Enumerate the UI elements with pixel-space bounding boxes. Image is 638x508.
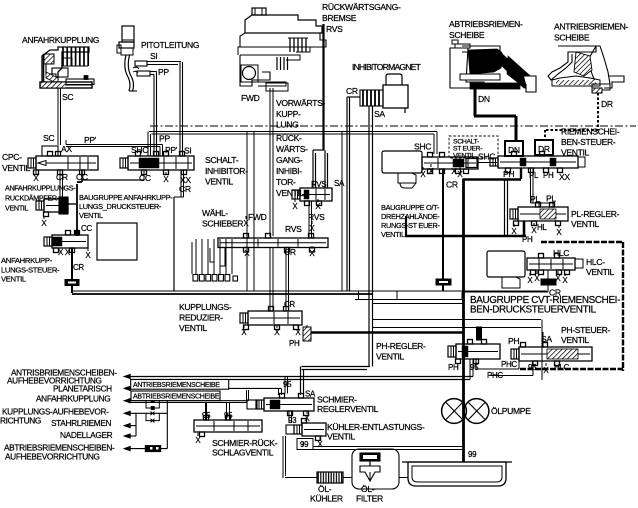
svg-text:PHC: PHC — [501, 360, 517, 369]
wire SA to phs — [542, 332, 544, 347]
svg-text:SI: SI — [184, 146, 191, 156]
svg-text:VENTIL: VENTIL — [5, 204, 28, 213]
svg-text:X: X — [562, 276, 568, 285]
svg-text:CR: CR — [73, 263, 84, 272]
svg-text:CC: CC — [139, 173, 151, 183]
wire inner line — [355, 291, 464, 304]
wire arrow row2 — [130, 388, 282, 395]
svg-text:LUNGS-STEUER-: LUNGS-STEUER- — [1, 265, 60, 274]
component damper black left — [65, 280, 79, 286]
svg-text:PH: PH — [503, 169, 514, 179]
wire CR down from schalt-steuer — [442, 169, 444, 279]
label PP top valve — [159, 134, 170, 144]
wire 99 lines — [303, 442, 464, 450]
arrow pointer 6 — [123, 433, 131, 439]
component box label ANTRIEBSRIEMENSCHEIBE — [131, 380, 229, 390]
svg-text:SCHEIBE: SCHEIBE — [554, 32, 590, 42]
label RVS top — [326, 24, 343, 34]
svg-text:X: X — [41, 219, 47, 228]
wire arrow row3 — [130, 390, 249, 403]
label PP' left — [84, 135, 97, 145]
wire CR down left — [71, 248, 73, 293]
wire 93 down — [289, 411, 292, 423]
component Oel-Kuehler — [317, 472, 343, 483]
svg-text:SHC: SHC — [131, 145, 148, 155]
svg-text:PITOTLEITUNG: PITOTLEITUNG — [141, 40, 200, 50]
wire DN thick — [474, 89, 516, 141]
label 95 under phr — [470, 363, 479, 372]
label XX under SIV — [180, 175, 191, 185]
port X waehl bot2 — [309, 246, 315, 258]
label CR under SIV — [179, 184, 191, 194]
label PHC — [501, 360, 517, 369]
component filter symbol — [360, 453, 380, 481]
svg-text:SCHIEBER: SCHIEBER — [202, 219, 243, 229]
group box Baugruppe Anfahrkupplung — [174, 131, 347, 291]
svg-text:SC: SC — [43, 133, 54, 143]
svg-text:FWD: FWD — [248, 212, 267, 222]
port XX steuer — [58, 248, 71, 257]
arrow pointer 2 — [123, 386, 131, 392]
label SI pitot — [150, 51, 157, 61]
svg-text:VENTIL: VENTIL — [205, 177, 234, 187]
wire SHC long bus — [148, 132, 437, 157]
port X srv — [195, 433, 201, 445]
label ANTRIEBSRIEMEN-SCHEIBE — [554, 22, 628, 43]
arrow pointer 5 — [123, 423, 131, 429]
wire PP vertical pipe — [154, 72, 157, 157]
wire PH bus — [405, 179, 526, 462]
wire arrow row5 — [130, 425, 136, 427]
component Anfahrkupplung clutch drawing — [40, 47, 94, 88]
svg-text:KÜHLER-ENTLASTUNGS-: KÜHLER-ENTLASTUNGS- — [327, 422, 425, 432]
label SA above valve — [334, 179, 345, 188]
component HLC solenoid box — [487, 251, 525, 288]
label PH under krv — [289, 339, 300, 348]
component PH line damper — [477, 327, 482, 340]
wire SHC to rsv — [477, 162, 497, 164]
svg-text:RVS: RVS — [326, 24, 343, 34]
label 95 c — [283, 380, 292, 389]
label ANFAHRKUPPLUNG2 — [36, 394, 110, 404]
label SCHALT-INHIBITOR-VENTIL — [205, 155, 248, 187]
label SHC right — [478, 152, 495, 162]
svg-text:X: X — [85, 251, 91, 260]
port X SIV — [163, 172, 169, 184]
svg-text:95: 95 — [470, 363, 479, 372]
valve Anfahrkupplungs-Ruckdaempfer-Ventil — [36, 197, 68, 217]
component Pitotleitung pitot tube drawing — [117, 26, 139, 91]
svg-text:PP: PP — [159, 134, 170, 144]
svg-text:SCHMIER-: SCHMIER- — [317, 395, 357, 405]
wire arrow row7 — [130, 448, 167, 450]
component Antriebsriemenscheibe pulley drawing — [548, 46, 624, 93]
svg-text:X: X — [511, 227, 517, 236]
label HLC-VENTIL — [586, 257, 615, 277]
label STAHRLRIEMEN — [51, 418, 112, 428]
wire PH thick horizontal — [311, 331, 464, 334]
label VORWAERTS-KUPP-LUNG — [276, 98, 326, 130]
wire CR double from magnet — [347, 97, 360, 291]
label PH under rsv — [503, 169, 514, 179]
svg-text:ABTRIEBSRIEMENSCHEIBE: ABTRIEBSRIEMENSCHEIBE — [133, 394, 220, 401]
label RVS waehl top — [285, 224, 302, 234]
port X rgi2 — [315, 199, 321, 211]
port X waehl bot1 — [244, 246, 250, 258]
wire DR dashed — [545, 93, 598, 141]
svg-text:99: 99 — [468, 450, 477, 459]
label BAUGRUPPE CVT — [470, 295, 620, 316]
svg-text:FWD: FWD — [241, 93, 260, 103]
svg-text:X: X — [292, 202, 298, 211]
wire 95 drop — [285, 377, 288, 394]
wire PH thick from PL — [523, 221, 526, 236]
svg-text:X: X — [309, 224, 315, 233]
label HLC phs — [554, 363, 570, 372]
svg-text:ANFAHRKUPPLUNG: ANFAHRKUPPLUNG — [36, 394, 110, 404]
svg-text:X: X — [274, 328, 280, 337]
label OEL-KUEHLER — [310, 484, 343, 504]
arrow pointer 1 — [123, 374, 131, 380]
svg-text:VENTIL: VENTIL — [79, 211, 103, 220]
label RVS right — [308, 212, 325, 222]
valve PL-Regler-Ventil — [510, 203, 568, 226]
port X ss1 — [420, 167, 426, 179]
svg-text:CC: CC — [81, 224, 92, 233]
label RIEMENSCHEIBEN-STEUER-VENTIL — [561, 127, 620, 158]
component CR damper mid — [436, 279, 451, 291]
label 95 phs — [528, 363, 537, 372]
label HL — [537, 223, 547, 232]
label RVS above valve — [311, 180, 326, 189]
svg-text:DN: DN — [478, 94, 490, 104]
label PL PL — [530, 194, 556, 205]
label CC under SIV — [139, 173, 151, 183]
svg-text:VENTIL: VENTIL — [561, 335, 590, 345]
svg-text:X: X — [317, 440, 323, 449]
label PP pitot — [158, 67, 169, 77]
port X hlc1 — [527, 273, 533, 285]
port X phs — [543, 363, 549, 375]
valve Schmier-Rueckschlagventil — [194, 416, 262, 437]
label 95 b — [224, 411, 233, 420]
svg-text:VENTIL: VENTIL — [453, 153, 476, 160]
label OEL-FILTER — [356, 484, 383, 504]
wire vert B — [166, 401, 168, 449]
label CR waehl — [284, 247, 296, 257]
label 99 pan — [468, 450, 477, 459]
label PLANETARISCH — [53, 384, 112, 394]
port X hlc4 — [562, 273, 568, 285]
svg-text:RÜCKWÄRTSGANG-: RÜCKWÄRTSGANG- — [322, 2, 401, 12]
wire SA double from magnet — [369, 106, 373, 367]
port X krv3 — [295, 325, 301, 337]
port X waehl top — [243, 216, 249, 228]
svg-text:X: X — [295, 328, 301, 337]
svg-text:X: X — [33, 174, 39, 183]
component CR damper HLC — [462, 270, 556, 299]
svg-text:KUPP-: KUPP- — [276, 109, 301, 119]
svg-text:SCHALT-: SCHALT- — [453, 139, 479, 146]
svg-text:CR: CR — [346, 86, 358, 96]
label SCHMIER-REGLERVENTIL — [317, 395, 379, 415]
svg-text:ANTRIEBSRIEMEN-: ANTRIEBSRIEMEN- — [554, 22, 628, 32]
wire PL wires — [531, 168, 555, 207]
boundary chain line top — [150, 125, 636, 127]
svg-text:CR: CR — [56, 172, 68, 182]
label 99 — [297, 439, 313, 450]
svg-text:X: X — [195, 436, 201, 445]
label DN — [478, 94, 490, 104]
wire PH upper thick — [463, 178, 522, 180]
svg-text:HLC: HLC — [554, 363, 570, 372]
label PH under phr — [448, 363, 459, 372]
svg-text:X: X — [428, 167, 434, 176]
svg-text:PH: PH — [448, 363, 459, 372]
label 95 a — [202, 411, 211, 420]
svg-text:X: X — [163, 175, 169, 184]
port X CPC — [33, 171, 39, 183]
label SC under clutch — [62, 92, 73, 102]
component DR port box — [535, 140, 553, 155]
label ANTRISBRIEMENSCHEIBEN-AUFHEBEVORRICHTUNG — [7, 368, 117, 386]
label PH under pl — [522, 235, 533, 244]
svg-text:PH: PH — [508, 336, 519, 346]
label INHIBITORMAGNET — [352, 62, 422, 72]
label CR under CPC — [56, 172, 68, 182]
svg-text:VENTIL: VENTIL — [586, 267, 615, 277]
svg-text:VENTIL: VENTIL — [179, 323, 208, 333]
wire RVS down — [309, 201, 312, 238]
svg-text:INHIBITORMAGNET: INHIBITORMAGNET — [352, 62, 422, 72]
wire CR from SIV — [174, 170, 184, 197]
svg-text:REDUZIER-: REDUZIER- — [179, 312, 223, 322]
label PH-REGLER-VENTIL — [376, 341, 426, 361]
component oil pan — [402, 462, 512, 486]
label 93 — [288, 416, 297, 425]
port X hlc3 — [555, 271, 561, 283]
svg-text:PH: PH — [543, 171, 554, 180]
label WAEHL-SCHIEBER — [202, 208, 243, 229]
label ANFAHRKUPPLUNGS-RUCKDAEMPFER-VENTIL — [5, 184, 76, 213]
svg-text:X: X — [543, 366, 549, 375]
arrow pointer 7 — [123, 446, 131, 452]
svg-text:KÜHLER: KÜHLER — [310, 494, 343, 504]
label ABTRIEBSRIEMEN-SCHEIBE — [449, 19, 523, 40]
label RVS mid — [0, 0, 1, 1]
label CR at magnet — [346, 86, 358, 96]
component PH hatch connector — [303, 325, 311, 341]
label PL-REGLER-VENTIL — [571, 209, 620, 229]
svg-text:TOR-: TOR- — [276, 177, 296, 187]
svg-text:PLANETARISCH: PLANETARISCH — [53, 384, 112, 394]
label CR above krv — [284, 300, 295, 309]
svg-text:CR: CR — [284, 300, 295, 309]
svg-text:SI: SI — [150, 51, 157, 61]
port X schmier — [304, 411, 310, 423]
valve PH-Steuer-Ventil — [511, 343, 592, 366]
svg-text:NADELLAGER: NADELLAGER — [60, 430, 113, 440]
svg-text:SC: SC — [62, 92, 73, 102]
label CC under CPC — [76, 172, 88, 182]
label FWD waehl — [248, 212, 267, 222]
port X pl2 — [531, 223, 537, 235]
svg-text:PP': PP' — [84, 135, 97, 145]
wire PH port drop — [520, 168, 522, 179]
label SA schmier — [305, 390, 316, 399]
svg-text:X: X — [420, 170, 426, 179]
wire vert A — [135, 413, 137, 436]
group CVT box — [520, 242, 623, 371]
svg-text:SA: SA — [334, 179, 345, 188]
component U symbol squares — [146, 399, 159, 410]
label CR under steuer — [73, 263, 84, 272]
wire ruckdaempfer link — [68, 203, 76, 205]
component Waehl-Schieber detent comb — [192, 239, 238, 281]
svg-text:LUNGS_DRUCKSTEUER-: LUNGS_DRUCKSTEUER- — [79, 202, 162, 211]
group dashed SCHALT-STEUER — [449, 136, 498, 158]
label BAUGRUPPE O/T — [381, 203, 440, 239]
port X hlc2 — [534, 271, 540, 283]
component Vorwaerts clutch and reverse brake drawing — [238, 8, 326, 91]
arrow pointer 3 — [123, 398, 131, 404]
wire arrow row6 — [130, 435, 136, 437]
svg-text:VORWÄRTS-: VORWÄRTS- — [276, 98, 326, 108]
label KUPPLUNGS-REDUZIER-VENTIL — [179, 302, 232, 333]
wire cooler drop — [283, 436, 286, 478]
wire CR from CPC — [60, 170, 63, 200]
svg-text:VENTIL: VENTIL — [376, 351, 405, 361]
label ABTRIEBSRIEMENSCHEIBEN-AUFHEBEVORRICHTUNG — [4, 443, 115, 462]
port X ss4 — [457, 167, 463, 179]
wire FWD pipe down — [270, 88, 273, 236]
component box label ABTRIEBSRIEMENSCHEIBE — [131, 391, 220, 401]
label SI mid — [184, 146, 191, 156]
svg-text:X: X — [556, 228, 562, 237]
label CR under hlc — [549, 288, 561, 298]
svg-text:WÄRTS-: WÄRTS- — [276, 144, 308, 154]
label CPC-VENTIL — [2, 152, 31, 173]
svg-text:RÜCK-: RÜCK- — [276, 133, 302, 143]
valve HLC-Ventil — [527, 254, 583, 275]
svg-text:AX: AX — [61, 144, 72, 154]
wire arrow row4 — [130, 412, 167, 414]
label PH-STEUER-VENTIL — [561, 325, 611, 345]
svg-text:REGLERVENTIL: REGLERVENTIL — [317, 404, 379, 414]
valve Schalt-Inhibitor-Ventil — [120, 152, 194, 175]
label PH under rsv2 — [543, 171, 554, 180]
port X steuer2 — [85, 248, 91, 260]
group box PH-Regler — [372, 320, 542, 381]
component damper on abtriebs line — [145, 446, 160, 452]
label BAUGRUPPE ANFAHRKUPP — [79, 193, 173, 220]
wire bus drops — [270, 248, 289, 312]
svg-text:ÖL-: ÖL- — [361, 484, 375, 494]
label PHC2 — [487, 371, 503, 380]
wire SI vertical pipe — [180, 62, 183, 156]
valve PH-Regler-Ventil — [448, 340, 500, 364]
svg-text:ABTRIEBSRIEMEN-: ABTRIEBSRIEMEN- — [449, 19, 523, 29]
label PH above phs — [508, 336, 519, 346]
svg-text:SHC: SHC — [414, 142, 431, 152]
svg-text:VENTIL: VENTIL — [381, 230, 405, 239]
wire RVS pipe — [313, 24, 328, 188]
label FWD — [241, 93, 260, 103]
svg-text:BAUGRUPPE ANFAHRKUPP-: BAUGRUPPE ANFAHRKUPP- — [79, 193, 173, 202]
wire PH double vertical — [505, 179, 508, 236]
svg-text:X: X — [315, 202, 321, 211]
port X ruckdaempfer — [41, 216, 47, 228]
label AX — [61, 144, 72, 154]
svg-text:X: X — [244, 249, 250, 258]
label SCHMIER-RUECK-SCHLAGVENTIL — [212, 438, 278, 458]
label CR under ss — [446, 180, 458, 190]
svg-text:CPC-: CPC- — [2, 152, 22, 162]
svg-text:BAUGRUPPE O/T-: BAUGRUPPE O/T- — [381, 203, 440, 212]
wire O/T drain — [405, 216, 407, 236]
label ANFAHRKUPPLUNG — [22, 35, 100, 45]
svg-text:XX: XX — [559, 172, 570, 182]
svg-text:SCHLAGVENTIL: SCHLAGVENTIL — [212, 448, 274, 458]
svg-text:99: 99 — [300, 440, 309, 449]
wire rueckschlag pipes — [206, 403, 230, 421]
svg-text:VENTIL: VENTIL — [327, 432, 356, 442]
component Oel-Filter dashed box — [352, 449, 399, 489]
wire SI stub — [135, 61, 181, 66]
svg-text:AUFHEBEVORRICHTUNG: AUFHEBEVORRICHTUNG — [5, 452, 100, 462]
svg-text:STAHRLRIEMEN: STAHRLRIEMEN — [51, 418, 112, 428]
svg-text:PH-STEUER-: PH-STEUER- — [561, 325, 611, 335]
label SHC left — [131, 145, 148, 155]
svg-text:95: 95 — [528, 363, 537, 372]
wire PP stub — [137, 71, 157, 76]
svg-text:RIEMENSCHEI-: RIEMENSCHEI- — [561, 127, 620, 137]
svg-text:WÄHL-: WÄHL- — [202, 208, 228, 218]
port X ss3 — [451, 164, 457, 176]
svg-text:DN: DN — [508, 145, 520, 155]
label DR — [601, 99, 613, 109]
svg-text:X: X — [309, 249, 315, 258]
wire SA step down — [301, 367, 371, 396]
svg-text:PH-REGLER-: PH-REGLER- — [376, 341, 426, 351]
wire CC from CPC — [82, 170, 144, 182]
svg-text:PL-REGLER-: PL-REGLER- — [571, 209, 620, 219]
port X ss2 — [428, 164, 434, 176]
svg-text:PP': PP' — [165, 145, 178, 155]
label HLC above valve — [553, 248, 569, 258]
port X rgi1 — [292, 199, 298, 211]
svg-text:VENTIL: VENTIL — [571, 219, 600, 229]
svg-text:KUPPLUNGS-: KUPPLUNGS- — [179, 302, 232, 312]
svg-text:SCHALT-: SCHALT- — [205, 155, 239, 165]
valve Kupplungs-Reduzier-Ventil — [240, 307, 302, 330]
svg-text:LUNG: LUNG — [276, 120, 299, 130]
label CC mid — [81, 224, 92, 233]
label RUECK-WAERTS-GANG-INHIBI-TOR-VENTIL — [276, 133, 308, 198]
svg-text:BEN-STEUER-: BEN-STEUER- — [561, 137, 616, 147]
wire CC riser — [75, 182, 82, 236]
label KUPPLUNGS-AUFHEBEVORRICHTUNG — [0, 407, 109, 426]
label SHC above — [414, 142, 431, 152]
label KUEHLER-ENTLASTUNGS-VENTIL — [327, 422, 425, 442]
svg-text:INHIBI-: INHIBI- — [276, 166, 302, 176]
svg-text:RICHTUNG: RICHTUNG — [0, 416, 41, 426]
svg-text:ANFAHRKUPP-: ANFAHRKUPP- — [1, 256, 53, 265]
svg-text:ANFAHRKUPPLUNG: ANFAHRKUPPLUNG — [22, 35, 100, 45]
valve Kuehler-Entlastungs-Ventil — [286, 419, 326, 441]
valve Rueckwaerts-Gang-Inhibitor-Ventil — [292, 188, 332, 206]
svg-text:DR: DR — [601, 99, 613, 109]
